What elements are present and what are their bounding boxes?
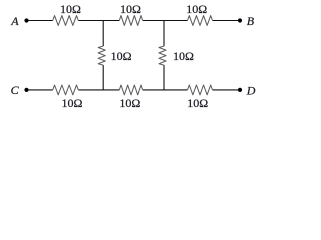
svg-text:10Ω: 10Ω xyxy=(187,96,208,110)
svg-text:10Ω: 10Ω xyxy=(186,2,207,16)
svg-text:10Ω: 10Ω xyxy=(120,2,141,16)
svg-text:10Ω: 10Ω xyxy=(60,2,81,16)
svg-text:A: A xyxy=(10,14,19,28)
svg-text:10Ω: 10Ω xyxy=(62,96,83,110)
svg-text:C: C xyxy=(11,83,20,97)
svg-text:10Ω: 10Ω xyxy=(173,49,194,63)
svg-text:10Ω: 10Ω xyxy=(111,49,132,63)
svg-text:B: B xyxy=(247,14,255,28)
svg-text:D: D xyxy=(246,84,256,98)
svg-text:10Ω: 10Ω xyxy=(119,96,140,110)
